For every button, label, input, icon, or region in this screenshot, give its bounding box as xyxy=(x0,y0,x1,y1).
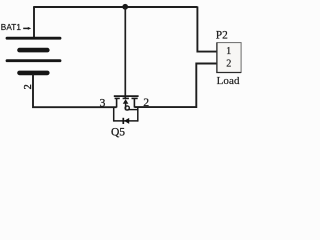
channel dash right xyxy=(132,97,138,99)
wire Q5 pin2 to P2 pin 2 xyxy=(134,64,216,108)
wire top horizontal net xyxy=(33,6,197,8)
battery BAT1 xyxy=(7,38,60,73)
svg-text:3: 3 xyxy=(100,96,106,110)
diode cathode bar xyxy=(122,118,124,124)
annotation arrow pointing to battery xyxy=(23,27,31,30)
wire right vertical to P2 pin 1 xyxy=(197,7,216,52)
connector P2 box xyxy=(217,43,241,73)
body line down xyxy=(125,104,127,111)
svg-text:P2: P2 xyxy=(216,30,228,42)
body diode bottom wire xyxy=(114,120,138,122)
drain leg left xyxy=(116,98,118,107)
svg-text:Load: Load xyxy=(217,75,240,87)
body diode loop right leg xyxy=(137,107,139,122)
junction node dot xyxy=(122,4,128,10)
channel dash left xyxy=(115,97,120,99)
source leg right xyxy=(133,98,135,107)
body arrow (points up to channel) xyxy=(123,99,129,104)
body to source connection xyxy=(128,109,138,111)
gate bar xyxy=(114,95,139,97)
diode triangle (cathode left) xyxy=(124,118,129,124)
wire battery negative down and bottom left horizontal xyxy=(33,74,117,107)
svg-text:2: 2 xyxy=(226,59,231,70)
body-source loop xyxy=(125,106,129,110)
transistor Q5 (P-MOSFET) xyxy=(114,96,139,124)
svg-text:1: 1 xyxy=(226,46,231,57)
body diode loop left leg xyxy=(113,107,115,122)
svg-text:Q5: Q5 xyxy=(111,127,125,139)
svg-text:BAT1: BAT1 xyxy=(1,23,22,32)
wire gate vertical from junction to Q5 xyxy=(124,7,126,99)
channel dash middle xyxy=(123,97,129,99)
wire battery positive vertical xyxy=(33,7,35,38)
